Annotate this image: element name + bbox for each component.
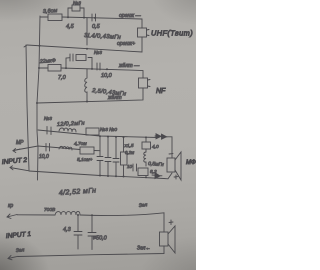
node H2 d1 xyxy=(99,135,101,137)
svg-text:4,0: 4,0 xyxy=(152,144,159,150)
wire H3 end to cap bank xyxy=(94,150,100,152)
node rail P on return xyxy=(39,45,41,47)
wire rail P (positive input bus, vertical) xyxy=(37,16,40,180)
node H4 e3 xyxy=(115,175,117,177)
capacitor C4 parallel branch wires xyxy=(66,58,92,70)
diode arrow A1 on wire to speaker xyxy=(155,134,167,139)
resistor R3 on H3 xyxy=(80,147,94,154)
svg-text:INPUT 1: INPUT 1 xyxy=(6,231,32,240)
node row1 return left hook xyxy=(24,45,27,47)
diode arrow A2 on H4 xyxy=(152,173,162,179)
wire row4 top cont xyxy=(80,213,164,232)
capacitor C4 ticks xyxy=(70,54,73,61)
wire row3 middle H3 from input xyxy=(13,146,80,151)
inductor L2 vertical with coil xyxy=(85,69,87,101)
resistor R7 small box on branch xyxy=(142,142,151,149)
svg-text:0,5мГн: 0,5мГн xyxy=(148,161,164,168)
svg-text:х1,5: х1,5 xyxy=(124,143,134,149)
svg-text:4,3: 4,3 xyxy=(63,227,72,233)
svg-text:≠50,0: ≠50,0 xyxy=(93,236,108,242)
svg-text:Зел: Зел xyxy=(16,247,25,254)
node H2 d3 xyxy=(115,136,117,138)
node H2 d4 xyxy=(123,136,125,138)
node row1 a xyxy=(67,16,69,18)
svg-text:жёлт —: жёлт — xyxy=(118,63,140,69)
wire row3 top rail H2 xyxy=(38,130,158,138)
input1 bottom arrow xyxy=(8,256,18,260)
speaker SP1 magnet box xyxy=(167,158,175,172)
wire row1 top from rail to resistor R1 xyxy=(40,16,48,18)
terminal UHF pin marks xyxy=(147,30,150,36)
speaker SP2 cone xyxy=(168,226,175,253)
input 2 arrow lead bottom xyxy=(10,166,29,171)
capacitor C8 ticks xyxy=(133,164,137,171)
svg-text:7,0: 7,0 xyxy=(58,75,67,81)
svg-text:№3: №3 xyxy=(73,1,81,7)
inductor L6 coil on row4 wire xyxy=(55,211,80,215)
svg-text:10: 10 xyxy=(127,164,133,169)
svg-text:0,5: 0,5 xyxy=(92,24,101,30)
svg-text:4/2,52 мГн: 4/2,52 мГн xyxy=(59,187,97,197)
speaker SP1 cone xyxy=(175,152,181,180)
capacitor C2 ticks on main wire xyxy=(92,14,96,21)
capacitor bank vertical 1 xyxy=(97,136,103,176)
capacitor C1 parallel branch over R1 area xyxy=(68,8,84,17)
speaker SP2 plus mark top xyxy=(169,220,173,225)
svg-text:INPUT 2: INPUT 2 xyxy=(2,157,28,166)
inductor L4 coil on H3 xyxy=(59,146,72,150)
speaker SP1 plus mark xyxy=(174,175,178,179)
wire row2 feed from rail to C3 xyxy=(39,67,48,69)
svg-text:3L4/0,43мГн: 3L4/0,43мГн xyxy=(84,33,122,41)
capacitor bank vertical 3 xyxy=(113,137,119,176)
capacitor C1 body xyxy=(72,5,80,11)
svg-text:700В: 700В xyxy=(44,207,56,213)
svg-text:оранж —: оранж — xyxy=(119,13,142,19)
node H4 e2 xyxy=(107,175,109,177)
svg-text:4,5: 4,5 xyxy=(66,24,75,30)
inductor L3 coil on H2 xyxy=(59,128,76,132)
node row1 b xyxy=(83,17,85,19)
svg-text:10,0: 10,0 xyxy=(39,154,49,160)
node row2 c xyxy=(106,68,108,70)
input1 top arrow xyxy=(7,214,17,219)
capacitor C5 ticks xyxy=(97,63,100,70)
wire row2 top after C3 xyxy=(61,68,143,78)
resistor R5 in branch xyxy=(76,55,86,61)
node H4 e1 xyxy=(99,175,101,177)
svg-text:UHF(Твит): UHF(Твит) xyxy=(151,29,193,38)
svg-text:кр: кр xyxy=(8,203,13,209)
speaker SP2 magnet box xyxy=(160,232,169,246)
node H4 e5 xyxy=(145,176,147,178)
capacitor C7 ticks on H3 xyxy=(46,144,50,152)
svg-text:4,7ом: 4,7ом xyxy=(74,141,87,147)
svg-text:22мкФ: 22мкФ xyxy=(39,58,56,65)
svg-text:Зел←: Зел← xyxy=(137,246,151,252)
svg-text:МР: МР xyxy=(16,140,24,146)
node H4 e4 xyxy=(123,176,125,178)
wire rail N (left return bus, vertical) xyxy=(26,45,29,170)
wire row4 bottom xyxy=(18,246,164,257)
svg-text:МФ: МФ xyxy=(186,160,196,166)
node L2 bottom on H1 xyxy=(86,101,88,103)
svg-text:№3: №3 xyxy=(44,116,52,122)
resistor R1 xyxy=(48,14,62,21)
resistor R2 on H2 xyxy=(86,128,99,135)
resistor R4 box xyxy=(138,168,148,176)
wire to speaker SP1 xyxy=(165,137,172,158)
wire row3 bottom rail H4 xyxy=(29,171,172,179)
terminal NF box xyxy=(139,78,148,88)
resistor R6 vertical in bank xyxy=(123,137,125,176)
capacitor bank vertical 2 xyxy=(105,137,111,177)
wire row2 return H1 xyxy=(37,88,143,103)
terminal NF pin marks xyxy=(148,80,151,87)
wire row4 top xyxy=(17,214,55,216)
input 2 arrow lead top xyxy=(13,149,20,153)
svg-text:№3: №3 xyxy=(94,50,102,56)
capacitor C9 vertical xyxy=(74,215,82,249)
speaker SP1 minus mark xyxy=(169,153,173,155)
node row2 b xyxy=(91,68,93,70)
resistor R6 body xyxy=(121,152,128,165)
node H2 d5 xyxy=(145,136,147,138)
terminal UHF box xyxy=(138,28,147,37)
svg-text:0,2м: 0,2м xyxy=(125,150,134,155)
node inductor L1 bottom xyxy=(86,48,88,50)
svg-text:10,0: 10,0 xyxy=(101,73,113,79)
capacitor C6 ticks on H2 xyxy=(47,127,51,135)
svg-text:№3 №0: №3 №0 xyxy=(100,127,117,133)
svg-text:NF: NF xyxy=(156,88,166,95)
node row2 a xyxy=(65,67,67,69)
svg-text:жёлт: жёлт xyxy=(107,95,122,101)
wire row1 return xyxy=(27,37,142,52)
svg-text:3,6ом: 3,6ом xyxy=(43,8,58,15)
node H2 d2 xyxy=(107,136,109,138)
node rail P on H1 xyxy=(36,102,38,104)
node rail row2 tap xyxy=(38,67,40,69)
inductor L5 vertical branch xyxy=(144,138,146,167)
node row4 a xyxy=(77,214,79,216)
node row4 b xyxy=(91,214,93,216)
inductor L1 vertical wire xyxy=(86,18,88,45)
node row1 c xyxy=(94,17,96,19)
svg-text:12/0,2мГн: 12/0,2мГн xyxy=(57,121,85,128)
capacitor C10 vertical xyxy=(88,215,96,249)
svg-text:Зел: Зел xyxy=(139,202,148,209)
svg-text:5,1ом+: 5,1ом+ xyxy=(77,157,93,163)
svg-text:оранж+: оранж+ xyxy=(117,41,135,47)
capacitor C3 body xyxy=(48,65,61,72)
wire row1 top after R1 to corner xyxy=(62,17,142,28)
